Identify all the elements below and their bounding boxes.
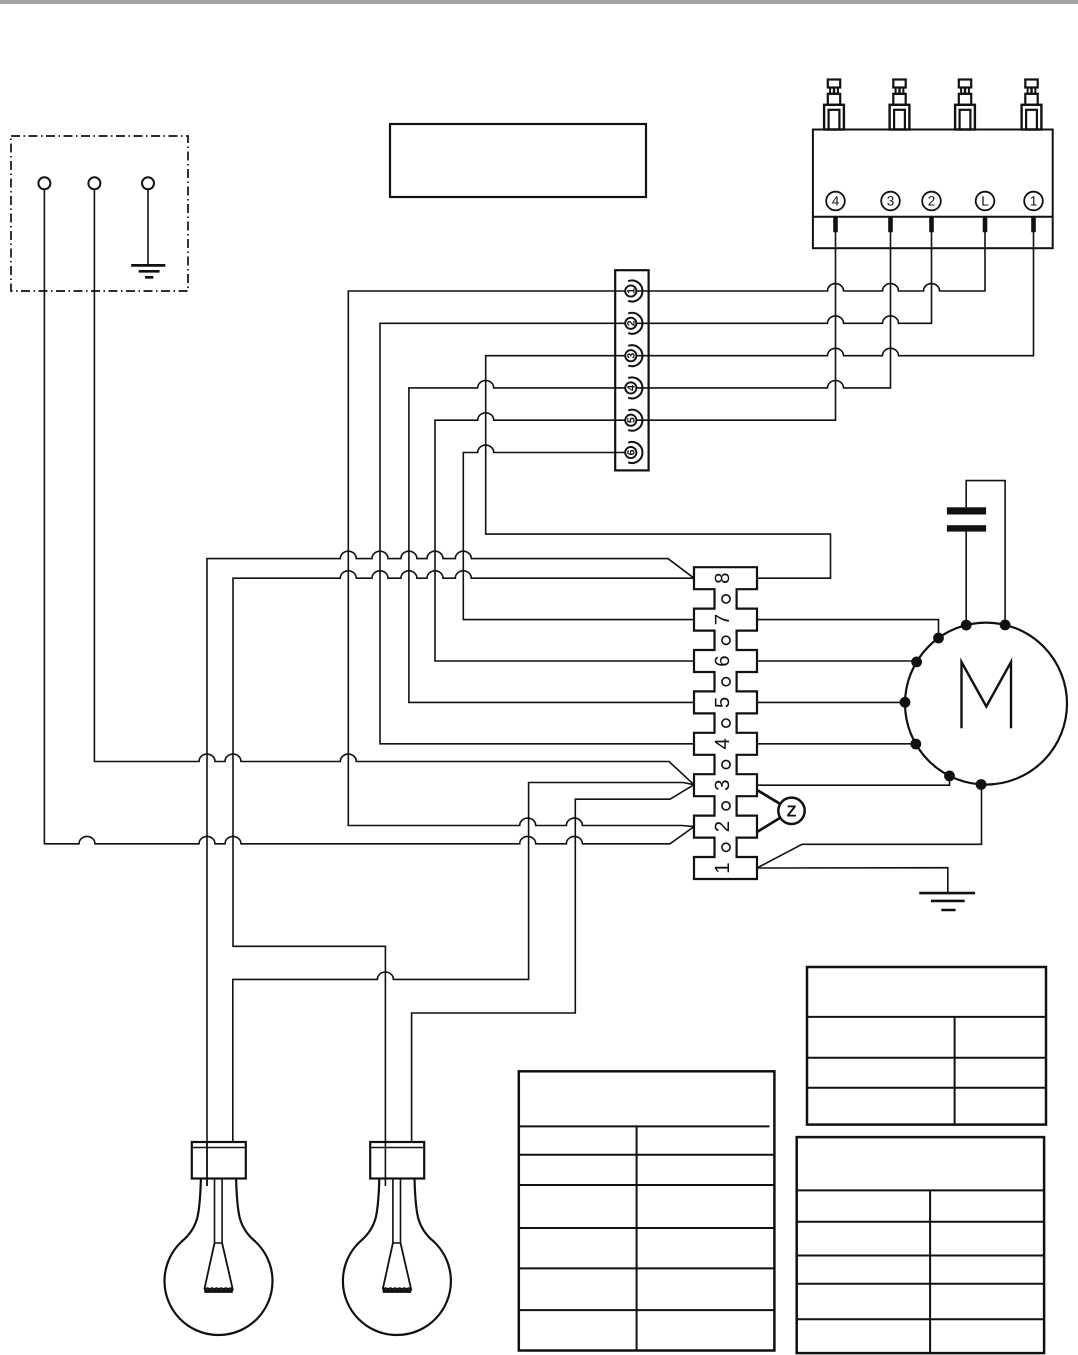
svg-text:3: 3 — [711, 779, 734, 790]
svg-text:7: 7 — [711, 614, 734, 625]
svg-text:1: 1 — [1030, 194, 1038, 209]
svg-text:5: 5 — [626, 417, 638, 423]
svg-text:2: 2 — [711, 821, 734, 832]
svg-text:2: 2 — [928, 194, 936, 209]
svg-text:2: 2 — [626, 320, 638, 326]
svg-text:3: 3 — [626, 353, 638, 359]
svg-text:6: 6 — [711, 655, 734, 666]
svg-text:4: 4 — [626, 385, 638, 391]
svg-text:8: 8 — [711, 572, 734, 583]
svg-text:Z: Z — [787, 803, 797, 820]
svg-text:5: 5 — [711, 697, 734, 708]
svg-text:3: 3 — [887, 194, 895, 209]
svg-text:4: 4 — [832, 194, 840, 209]
svg-text:4: 4 — [711, 738, 734, 749]
svg-text:L: L — [981, 194, 989, 209]
svg-text:1: 1 — [711, 862, 734, 873]
svg-text:1: 1 — [626, 288, 638, 294]
svg-text:6: 6 — [626, 449, 638, 455]
